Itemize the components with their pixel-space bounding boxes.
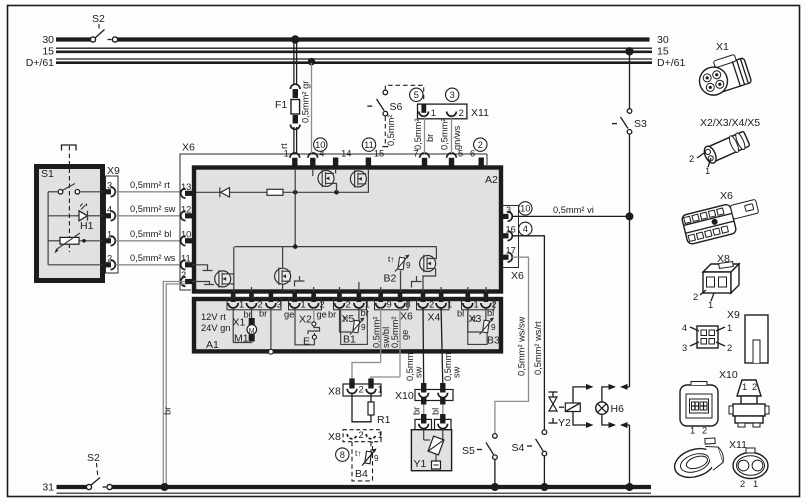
svg-text:2: 2 [689,154,694,164]
svg-text:1: 1 [378,385,383,395]
svg-text:X9: X9 [727,309,740,321]
svg-text:2: 2 [181,270,186,280]
svg-text:X11: X11 [471,107,489,119]
Y1 plug sockets [415,414,451,430]
A2 top pin 15 [366,149,385,167]
svg-text:10: 10 [520,204,530,214]
connector pictogram X8 [693,253,739,310]
potentiometer inside S1 [48,233,103,253]
connector pictogram X1 [694,41,752,99]
svg-text:1: 1 [474,300,479,310]
wire: rail2 to T3 [231,247,234,296]
connector X6 pin 10 (left) [181,229,193,245]
svg-text:0,5mm²: 0,5mm² [386,114,396,146]
circled 4 (right) [519,222,532,235]
wire bl : X10 to Y1 [431,405,443,417]
wire: S3 down to H6 branch [629,134,631,387]
transistor T4 (MOSFET in A2) [275,267,291,285]
svg-text:11: 11 [364,140,374,150]
connector X6 pin 12 (left) [181,204,193,220]
connector X6 pin 13 (left) [181,182,193,198]
gate symbol T3b [192,282,214,285]
svg-text:S5: S5 [462,445,475,457]
connector X6 frame (left side) [180,142,487,291]
svg-text:S2: S2 [87,452,100,464]
wire: S1 internal left bus [47,192,49,265]
svg-text:1: 1 [753,479,758,489]
svg-text:2: 2 [752,382,757,392]
gate symbol T4 [295,276,305,287]
svg-text:X6: X6 [720,190,733,202]
A2 top pin 6 [470,149,484,167]
node: case ground circle on A1 edge [269,349,274,354]
svg-text:15: 15 [374,149,384,159]
transistor T3 (MOSFET in A2) [215,270,231,288]
A1 socket pin 2 at x=339.5 [335,292,351,310]
connector X10 [395,383,453,405]
thermistor B2 inside A2 [384,255,412,299]
resistor R1 [352,394,391,427]
fuse F1 [275,42,311,154]
A2 right pin 16 [501,224,516,240]
svg-text:3: 3 [107,180,112,190]
node: junction dot D+/61 / gr wire [308,58,316,66]
motor M1 inside A1 [233,308,256,345]
svg-text:X2/X3/X4/X5: X2/X3/X4/X5 [700,117,760,129]
svg-text:sw: sw [452,366,462,378]
connector group labels [233,311,482,329]
transistor T5 (MOSFET in A2) [420,255,436,273]
connector shell X4 group [417,298,450,310]
wire 0,5mm2 sw : X4-1 to X10 [441,308,461,385]
A1 socket pin 1 at x=294.7 [290,292,306,310]
connector pictogram X6 [681,190,762,245]
svg-text:Y1: Y1 [414,458,427,470]
svg-text:br: br [163,407,173,415]
svg-text:0,5mm² bl: 0,5mm² bl [130,229,171,239]
A1 socket pin 3 at x=270.9 [266,292,282,310]
svg-text:gn/ws: gn/ws [452,125,462,150]
svg-text:B4: B4 [355,468,368,480]
svg-text:2: 2 [459,108,464,118]
A2 top pin 4 [308,149,324,167]
svg-text:Y2: Y2 [558,417,571,429]
switch S3 [612,53,647,134]
svg-text:0,5mm² sw: 0,5mm² sw [130,204,176,214]
svg-text:br: br [412,407,422,415]
svg-text:H1: H1 [80,220,94,232]
control unit A2 (main box upper) [194,168,501,292]
node: dot pin1 rail [293,190,298,195]
A1 socket pin 1 at x=467.8 [463,292,479,310]
wire: X6grp pin8 down inside A1 [399,308,401,377]
wire: pin1 vertical inside A2 [294,169,296,247]
svg-text:10: 10 [181,229,191,239]
svg-text:0,5mm²: 0,5mm² [372,316,382,348]
svg-text:11: 11 [181,253,191,263]
node: dot br/bus31 [161,483,169,491]
gate symbol T3a [192,265,213,271]
resistor inside A2 [267,189,369,195]
svg-text:X1: X1 [716,41,729,53]
svg-text:2: 2 [107,253,112,263]
node: dot rail2 [293,244,298,249]
svg-text:X10: X10 [395,390,414,402]
svg-text:S1: S1 [41,168,54,180]
svg-text:1: 1 [705,166,710,176]
svg-text:ge: ge [284,310,294,320]
svg-text:0,5mm²: 0,5mm² [413,118,423,150]
svg-text:5: 5 [414,90,419,100]
connector pictogram X2/X3/X4/X5 [689,117,760,176]
svg-text:2: 2 [693,292,698,302]
svg-text:16: 16 [506,224,516,234]
switch S5 [462,434,497,485]
svg-text:X6: X6 [400,311,413,323]
svg-text:bl: bl [457,309,464,319]
node: dot right line/bus31 [626,483,634,491]
svg-text:ge: ge [400,330,410,340]
svg-text:0,5mm² rt: 0,5mm² rt [130,180,170,190]
A1 socket pin 2 at x=313.6 [309,292,325,310]
connector X9 pin 1 [103,229,116,245]
switch E inside A1 [295,308,320,348]
gate symbol T5 [412,276,422,288]
svg-text:X9: X9 [107,165,120,177]
wire: X6grp pin8 to X8 [371,377,400,381]
transistor T1 (MOSFET in A2) [318,170,334,188]
connector X6 pin 2 (left) [181,270,193,286]
svg-text:0,5mm²: 0,5mm² [390,316,400,348]
svg-text:0,5mm² vi: 0,5mm² vi [553,205,594,215]
connector X11 [418,104,490,119]
svg-text:R1: R1 [377,414,391,426]
svg-text:bl: bl [431,408,441,415]
wire color labels in A1 [244,308,495,320]
connector X6 pin 11 (left) [181,253,193,269]
svg-text:D+/61: D+/61 [26,57,54,69]
svg-text:2: 2 [478,140,483,150]
svg-text:S2: S2 [92,13,105,25]
A2 top pin 1 [284,149,300,167]
connector pictogram X11 [669,435,768,489]
svg-text:0,5mm² ws: 0,5mm² ws [130,253,176,263]
svg-text:t↑: t↑ [388,255,394,264]
svg-text:10: 10 [315,140,325,150]
svg-text:4: 4 [107,204,112,214]
svg-text:2: 2 [320,300,325,310]
node: junction dot bus15 / S3 feed [625,47,633,55]
wire: pin4 to T1 [312,169,314,176]
svg-text:13: 13 [181,182,191,192]
svg-text:9: 9 [387,300,392,310]
wire 0,5mm2 sw : X9-4 to X6-12 [116,204,182,216]
svg-text:1: 1 [284,149,289,159]
svg-text:X4: X4 [428,312,441,324]
connector X9 pin 2 [103,253,116,269]
wire: T2 to rail / pin15 [367,169,369,192]
vertical wire labels under X6 group (inside A1) [372,316,410,348]
svg-text:1: 1 [239,300,244,310]
svg-text:4: 4 [682,323,687,333]
svg-text:0,5mm² ws/rt: 0,5mm² ws/rt [533,321,543,375]
circled 2 (top) [474,138,487,151]
A1 socket pin 1 at x=441.1 [436,292,452,310]
thermistor B4 (dashed option) [352,442,379,481]
solenoid valve Y2 [549,392,581,429]
svg-text:E: E [303,336,310,348]
A2 top pin 14 [333,149,352,167]
svg-text:8: 8 [340,450,345,460]
bus 30 (terminal 30 supply rail) [42,34,669,46]
control unit A1 (main box lower) [194,299,501,351]
svg-text:ge: ge [317,310,327,320]
wire: T5 source to pin [423,269,436,299]
switch S2 (top, in bus 30) [90,13,117,42]
svg-text:12V rt: 12V rt [201,312,226,322]
connector X9 pin 4 [103,204,116,220]
connector pictogram X9 [682,309,768,363]
svg-text:1: 1 [107,229,112,239]
svg-text:15: 15 [657,46,669,58]
A2 top pin 7 [413,149,429,167]
wire: X6grp pin9 down inside A1 [380,308,382,363]
svg-text:D+/61: D+/61 [657,57,685,69]
bus D+/61 rail [26,57,686,69]
LED H1 inside S1 [48,203,103,232]
A1 socket pin 8 at x=400.0 [395,292,411,310]
svg-text:X2: X2 [299,314,312,326]
svg-text:X11: X11 [729,439,747,451]
circled 10 (right) [519,202,532,215]
svg-text:X8: X8 [328,386,341,398]
connector X9 frame [106,165,121,273]
wire: H6 bottom branch arrows to bus31 [602,414,630,485]
svg-text:t↑: t↑ [343,315,349,324]
node: junction dot vi/S3 [626,212,634,220]
wire 0,5mm2 gn/ws : X11-2 to A2 pin5 [440,117,463,154]
svg-text:F1: F1 [275,99,287,111]
wire 0,5mm2 ws : X9-2 to X6-11 [116,253,182,265]
svg-text:rt: rt [471,315,477,324]
svg-text:2: 2 [740,479,745,489]
svg-text:sw: sw [414,366,424,378]
svg-text:17: 17 [506,246,516,256]
svg-text:3: 3 [682,343,687,353]
connector shell X2 group [289,298,322,310]
svg-text:X8: X8 [328,431,341,443]
connector pictogram X10 [680,369,769,436]
svg-text:9: 9 [374,454,379,463]
node: dot pin14 rail [334,190,339,195]
svg-text:X1: X1 [233,317,246,329]
A1 socket pin 2 at x=485.9 [481,292,497,310]
thermistor B1 inside A1 [340,308,368,346]
svg-text:6: 6 [470,149,475,159]
node: junction dot bus30 / F1 feed [291,35,299,43]
internal pin stub wires A2 bottom [252,282,487,298]
circled 5 [410,88,423,101]
connector X8 (dashed counterpart) [328,430,383,443]
svg-text:t↑: t↑ [355,449,361,458]
svg-text:1: 1 [301,300,306,310]
svg-text:2: 2 [727,343,732,353]
svg-text:1: 1 [727,323,732,333]
svg-text:30: 30 [657,34,669,46]
wire: A1 pin3 to case [270,308,272,350]
svg-text:31: 31 [42,482,54,494]
svg-text:12: 12 [181,204,191,214]
svg-text:30: 30 [42,34,54,46]
connector shell X3 group [462,298,495,310]
wire: T4 source to pin [283,284,295,298]
svg-text:4: 4 [523,224,528,234]
A2 top pin 5 [447,149,463,167]
bus 31 rail [42,482,651,494]
wire: internal rail 2 [235,246,437,248]
svg-text:M1: M1 [234,333,249,345]
svg-text:1: 1 [690,426,695,436]
svg-text:S6: S6 [390,101,403,113]
circled 3 [446,88,459,101]
svg-text:br: br [259,309,267,319]
switch S2 (bottom, in bus 31) [86,452,112,490]
wire: pin14 to T2 [335,169,337,173]
svg-text:3: 3 [506,205,511,215]
connector X8 [328,379,383,398]
svg-text:B1: B1 [343,334,356,346]
svg-text:1: 1 [742,382,747,392]
svg-text:15: 15 [42,46,54,58]
circled 11 (top) [362,138,375,151]
wire br : X10 to Y1 [412,405,424,417]
wire: T4 drain to rail2 [282,247,284,268]
svg-text:9: 9 [361,323,366,332]
transistor T2 (MOSFET in A2) [350,170,366,188]
svg-text:br: br [328,310,336,320]
svg-text:0,5mm² gr: 0,5mm² gr [301,81,311,123]
thermistor B3 inside A1 [468,308,500,347]
svg-text:1: 1 [447,300,452,310]
wire 0,5mm2 ws/rt : A2 pin16 to S4 [512,236,544,430]
svg-text:1: 1 [708,300,713,310]
connector shell X1 group [227,298,281,310]
wire: T1 to rail [334,183,337,192]
wire 0,5mm2 bl : X9-1 to X6-10 [116,229,182,241]
svg-text:2: 2 [346,300,351,310]
svg-text:0,5mm² ws/sw: 0,5mm² ws/sw [517,316,527,376]
svg-text:B3: B3 [487,335,500,347]
A1 socket pin 2 at x=251.5 [247,292,263,310]
svg-text:rt: rt [279,143,289,149]
svg-text:B2: B2 [384,273,397,285]
node: dot S5/bus31 [491,483,499,491]
svg-text:2: 2 [702,426,707,436]
node: dot S4/bus31 [540,483,548,491]
svg-text:9: 9 [406,261,411,270]
bus 15 rail [42,46,669,58]
A1 socket pin 9 at x=380.7 [376,292,392,310]
svg-text:3: 3 [450,90,455,100]
A1 socket pin 2 at x=423.0 [418,292,434,310]
A1 socket pin 1 at x=358.9 [354,292,370,310]
wire 0,5mm2 rt : X9-3 to X6-13 [116,180,182,192]
solenoid valve unit Y1 [411,430,451,471]
connector shell X5 group [334,298,367,310]
wire: Y2 relay branches with arrows [573,384,594,428]
svg-text:M: M [249,328,255,335]
svg-text:br: br [425,134,435,142]
wire: H6 top branch arrows [602,384,630,402]
svg-text:2: 2 [359,430,364,440]
svg-text:1: 1 [378,430,383,440]
svg-text:A1: A1 [206,339,219,351]
diode inside A2 [196,187,267,197]
svg-text:S4: S4 [512,442,525,454]
svg-text:S3: S3 [634,118,647,130]
svg-text:2: 2 [429,300,434,310]
wire 0,5mm2 br : X11-1 to A2 pin7 [413,117,435,154]
A2 right pin 3 [501,205,512,221]
svg-text:H6: H6 [611,403,625,415]
svg-text:bl: bl [487,308,494,318]
indicator lamp H6 [596,402,624,415]
svg-text:24V gn: 24V gn [201,323,230,333]
svg-text:0,5mm²: 0,5mm² [440,118,450,150]
A2 right pin 17 [501,246,516,262]
connector X6 frame (right side) [487,154,524,282]
switch inside S1 [48,184,103,195]
wire: S1 to X9 pin2 (ws) [48,264,103,266]
wire: X6grp pin9 to X8 [352,363,381,382]
svg-text:X6: X6 [511,270,524,282]
circled 10 (top) [314,138,327,151]
A1 socket pin 1 at x=233.2 [228,292,244,310]
svg-text:1: 1 [431,108,436,118]
svg-text:9: 9 [491,323,496,332]
svg-text:2: 2 [359,385,364,395]
actuator linkage symbol above S1 [62,145,77,252]
wire 0,5mm2 ws/sw : A2 pin17 to S5 [495,257,529,433]
switch S6 with dashed wiring [367,85,423,146]
svg-text:A2: A2 [485,174,498,186]
connector shell X6 group [375,298,409,310]
component S1 (control unit box, left) [37,167,103,281]
circled 8 [336,448,349,461]
wire: rail2 to T5 [435,247,438,259]
wire br (double) : X6 pin2 to bus 31 [163,282,186,486]
switch S4 [512,430,547,485]
wire 0,5mm2 sw : X4-2 to X10 [405,308,424,385]
svg-text:X10: X10 [719,369,738,381]
svg-text:X6: X6 [182,142,195,154]
wire 0,5mm2 gr : D+/61 to A2 pin4 [311,63,313,154]
connector X9 pin 3 [103,180,116,196]
svg-text:14: 14 [341,149,351,159]
wire 0,5mm2 vi : A2 pin3 to S3 line [512,205,628,216]
